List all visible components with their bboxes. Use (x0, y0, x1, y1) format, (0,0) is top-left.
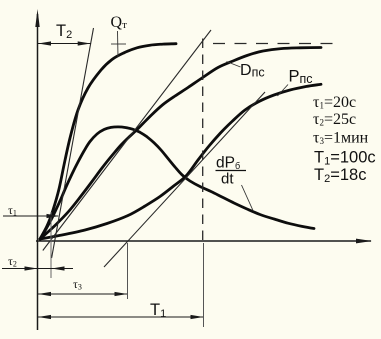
tangent line to Dps (43, 30, 211, 251)
curve Pps (40, 84, 321, 239)
curve Qt (40, 44, 176, 239)
horizontal dashed asymptote (213, 43, 338, 45)
extension line at x=50.5 (50, 212, 52, 278)
svg-text:dt: dt (221, 171, 234, 188)
dimension tau2 (2, 266, 73, 270)
curve dPb/dt (bell) (40, 127, 314, 239)
dimension T1 (38, 315, 204, 319)
extension line below axis at x=203.5 (203, 243, 205, 327)
dimension tau1 (3, 214, 60, 218)
curve Dps (40, 48, 321, 240)
vertical dashed line at T1 end (202, 39, 204, 242)
svg-text:T2=18с: T2=18с (314, 166, 366, 185)
y-axis (35, 9, 39, 330)
svg-text:T1=100с: T1=100с (314, 149, 376, 168)
level tick on Qt leader (111, 43, 126, 45)
dimension T2 (38, 41, 91, 45)
x-axis (36, 239, 372, 244)
leader line for Qt label (117, 31, 120, 57)
tangent line to Pps (104, 92, 265, 267)
tangent line to Qt (52, 28, 94, 258)
svg-text:Dпс: Dпс (240, 62, 265, 80)
dimension tau3 (38, 292, 128, 296)
extension line at x=127.5 (127, 243, 129, 299)
